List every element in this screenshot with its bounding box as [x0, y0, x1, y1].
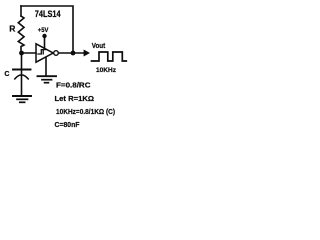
svg-text:F=0.8/RC: F=0.8/RC: [56, 81, 91, 90]
svg-text:Vout: Vout: [92, 43, 106, 50]
svg-text:10KHz: 10KHz: [96, 67, 117, 74]
svg-text:+5V: +5V: [38, 27, 49, 34]
svg-text:R: R: [9, 23, 15, 33]
svg-text:C: C: [4, 71, 9, 78]
svg-text:Let R=1KΩ: Let R=1KΩ: [55, 94, 95, 103]
svg-text:C=80nF: C=80nF: [55, 120, 80, 129]
svg-text:74LS14: 74LS14: [35, 9, 61, 19]
svg-text:10KHz=0.8/1KΩ (C): 10KHz=0.8/1KΩ (C): [56, 107, 115, 116]
